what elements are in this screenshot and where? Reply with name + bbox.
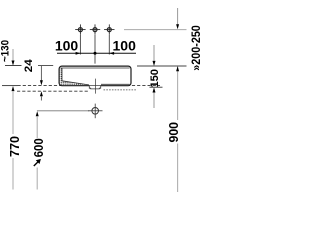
svg-text:100: 100: [55, 37, 79, 53]
svg-text:~130: ~130: [0, 40, 12, 62]
svg-text:»200-250: »200-250: [189, 25, 200, 71]
svg-text:600: 600: [31, 138, 46, 157]
svg-text:900: 900: [166, 122, 181, 143]
svg-text:150: 150: [149, 69, 161, 88]
svg-text:100: 100: [113, 37, 137, 53]
svg-text:24: 24: [23, 58, 35, 72]
svg-text:770: 770: [7, 136, 22, 157]
